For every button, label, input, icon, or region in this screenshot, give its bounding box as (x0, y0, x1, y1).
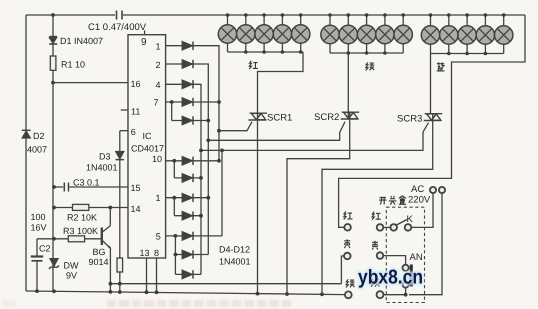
terminal AC2 (439, 187, 445, 193)
node rail SCR1 (256, 292, 260, 296)
wire blue bus to SCR3 (431, 54, 433, 121)
diode D9 (182, 157, 193, 165)
label switchbox 盒 (399, 196, 406, 205)
wire R2 to pin14 (54, 207, 73, 209)
wire pin10 branch (173, 161, 175, 178)
wire matrix row pin7 (166, 101, 219, 103)
diode D11 (182, 194, 193, 202)
svg-text:DW: DW (64, 261, 79, 271)
node rail R4 (118, 290, 122, 294)
pin 11 stub (121, 109, 128, 111)
switch box dashed border (386, 207, 424, 302)
svg-text:9V: 9V (66, 271, 77, 281)
svg-text:4007: 4007 (27, 145, 47, 155)
wire SCR3 cathode (322, 121, 433, 294)
svg-text:8: 8 (154, 248, 159, 258)
svg-text:SCR2: SCR2 (314, 112, 339, 123)
wire matrix row pin10b (174, 177, 201, 179)
wire matrix row pin5c (175, 273, 201, 275)
terminal red2 (377, 224, 384, 231)
wire bottom rail (26, 291, 345, 295)
svg-text:6: 6 (131, 127, 136, 137)
diode D10 (182, 174, 193, 182)
wire BG emitter (109, 248, 111, 292)
terminal green2 (377, 291, 384, 298)
terminal yellow1 (344, 253, 351, 260)
wire matrix row pin5 (166, 235, 222, 237)
node rail pin8 (155, 290, 159, 294)
svg-text:4: 4 (156, 80, 161, 90)
label red lamps 红 (249, 61, 258, 69)
svg-text:16V: 16V (31, 223, 47, 233)
node rail SCR2 (285, 292, 289, 296)
wire AC2 down (409, 193, 442, 294)
node R3 left (52, 237, 56, 241)
svg-text:1: 1 (156, 193, 161, 203)
node emitter / yellow line (109, 282, 113, 286)
wire matrix row pin4 (166, 84, 201, 274)
resistor R1 (50, 56, 56, 70)
wire SCR1 cathode (257, 120, 259, 294)
label terminal green1 绿 (346, 279, 355, 287)
node rail emitter (109, 290, 113, 294)
diode D4 (182, 42, 193, 50)
terminal green1 (345, 291, 352, 298)
thyristor SCR2 (341, 112, 360, 119)
label terminal red2 红 (372, 212, 381, 220)
node R1 bottom / pin16 wire (51, 81, 55, 85)
diode D7 (182, 98, 193, 106)
wire matrix row pin1Lb (174, 215, 201, 217)
wire bus D (221, 150, 223, 236)
svg-text:16: 16 (131, 79, 141, 89)
zener DW (49, 259, 59, 269)
node rail DW (52, 289, 56, 293)
wire blue lamp bus (431, 53, 504, 55)
svg-text:5: 5 (156, 232, 161, 242)
wire AN bottom down (405, 288, 407, 295)
wire pin 13 (146, 258, 148, 292)
svg-text:1N4001: 1N4001 (86, 163, 118, 173)
svg-text:IC: IC (143, 131, 153, 141)
thyristor SCR3 (424, 114, 443, 121)
wire pin7 branch (171, 102, 173, 121)
wire matrix row pin5b (175, 254, 208, 256)
svg-text:11: 11 (131, 107, 140, 117)
resistor R4 (117, 258, 123, 272)
capacitor C2 (36, 239, 38, 256)
svg-text:D3: D3 (99, 152, 111, 162)
wire pin5 branch (174, 236, 176, 255)
watermark red caption blobs (2, 300, 291, 307)
switch K (383, 226, 390, 228)
svg-text:AN: AN (410, 252, 423, 263)
svg-text:R3 100K: R3 100K (63, 226, 98, 236)
svg-text:C3 0.1: C3 0.1 (73, 178, 100, 188)
wire SCR1 gate line (219, 122, 252, 131)
lamp group red L1-L5 (218, 15, 310, 52)
diode D8 (182, 116, 193, 124)
wire SCR3 gate line (201, 123, 429, 151)
label terminal green2 绿 (371, 279, 380, 287)
node R4 / yellow line (118, 282, 122, 286)
svg-text:BG: BG (93, 247, 106, 257)
node lamp bottom junctions (244, 50, 487, 55)
node rail C2 (35, 289, 39, 293)
resistor R3 (68, 236, 84, 242)
svg-text:D2: D2 (33, 131, 45, 141)
diode Db (182, 250, 193, 258)
terminal red1 (344, 224, 351, 231)
label green lamps 绿 (366, 62, 375, 70)
IC U1 CD4017 box (128, 35, 166, 258)
lamp group green L6-L10 (321, 15, 413, 53)
svg-text:9: 9 (141, 37, 147, 48)
wire red lamp bus (228, 51, 304, 53)
wire top supply rail (26, 14, 115, 16)
diode D5 (182, 60, 193, 68)
wire left border (25, 15, 27, 291)
node rail SCR3 (320, 292, 324, 296)
wire green bus to SCR2 (348, 53, 349, 119)
svg-text:D1 IN4007: D1 IN4007 (60, 36, 103, 46)
node R2 left (52, 206, 56, 210)
svg-text:14: 14 (131, 204, 141, 214)
wire matrix row pin1L (166, 197, 209, 199)
CJK labels drawn as strokes (249, 61, 445, 288)
diode D6 (182, 80, 193, 88)
label terminal red1 红 (344, 211, 353, 219)
svg-text:SCR1: SCR1 (267, 113, 292, 124)
wire AC feed from top rail (339, 15, 525, 227)
svg-text:1: 1 (156, 42, 161, 52)
wire green lamp bus (330, 52, 403, 54)
wire pin5 branch2 (174, 255, 176, 275)
svg-text:K: K (407, 214, 414, 225)
svg-text:R2 10K: R2 10K (67, 213, 97, 223)
svg-text:7: 7 (154, 98, 159, 108)
label terminal yellow2 黄 (372, 241, 378, 250)
node lamp top junctions (226, 13, 506, 17)
svg-text:SCR3: SCR3 (397, 114, 422, 125)
label switchbox 开 (379, 198, 387, 205)
node AN bottom / green2 wire (404, 293, 408, 297)
wire pin6 D3 R4 branch (120, 130, 128, 132)
node rail pin13 (145, 290, 149, 294)
wire C3 to pin15 (54, 186, 63, 188)
wire K to AC1 (411, 193, 433, 227)
wire C2 ext / R3 line (37, 238, 68, 240)
svg-text:AC: AC (411, 184, 424, 195)
button AN (403, 265, 409, 271)
svg-text:100: 100 (31, 212, 46, 222)
label terminal yellow1 黄 (344, 239, 350, 248)
node collector junction (108, 206, 112, 210)
wire D1 branch vertical (52, 15, 54, 291)
wire pin16 (53, 82, 128, 84)
svg-text:1N4001: 1N4001 (219, 257, 251, 267)
diode D3 (116, 152, 125, 160)
wire matrix row pin7b (172, 120, 209, 122)
svg-text:2: 2 (156, 60, 161, 70)
resistor R2 (73, 204, 89, 210)
svg-text:15: 15 (131, 183, 141, 193)
wire red bus to SCR1 (258, 52, 304, 120)
wire green2 to AN junction (383, 294, 405, 296)
terminal AC1 (430, 187, 436, 193)
pin 9 stub (144, 30, 146, 34)
wire matrix row pin2 (166, 64, 209, 255)
diode D1 (49, 37, 57, 44)
svg-text:CD4017: CD4017 (131, 144, 164, 154)
diode Dc (182, 270, 193, 278)
diode D2 (22, 130, 31, 138)
svg-text:R1 10: R1 10 (61, 60, 85, 70)
diode Da (182, 232, 193, 240)
svg-text:C1 0.47/400V: C1 0.47/400V (88, 22, 147, 33)
label blue lamps 蓝 (437, 62, 445, 71)
wire pin 8 (156, 258, 158, 292)
svg-text:C2: C2 (39, 244, 51, 254)
wire yellow return line (110, 283, 341, 285)
node C3 left (52, 185, 56, 189)
wire SCR2 cathode (287, 119, 350, 294)
svg-text:ybx8.cn: ybx8.cn (358, 267, 423, 289)
label switchbox 关 (389, 196, 397, 205)
lamp group blue L11-L15 (421, 15, 513, 54)
svg-text:10: 10 (152, 154, 162, 164)
svg-text:9014: 9014 (89, 257, 109, 267)
wire yellow2 to AN top (383, 256, 405, 265)
thyristor SCR1 (249, 113, 268, 120)
capacitor C3 (64, 183, 68, 192)
svg-text:13: 13 (140, 248, 150, 258)
wire matrix row pin10 (166, 160, 219, 162)
capacitor C1 (117, 11, 123, 20)
terminal yellow2 (377, 252, 384, 259)
wire pin1L branch (173, 198, 175, 216)
wire matrix row pin1 (166, 46, 219, 161)
svg-text:220V: 220V (408, 195, 431, 206)
wire BG collector (109, 208, 111, 226)
svg-text:D4-D12: D4-D12 (219, 245, 250, 255)
node top rail / D1 branch (51, 13, 55, 17)
diode D12 (182, 212, 193, 220)
transistor BG 9014 (102, 226, 112, 249)
wire SCR2 gate line (208, 122, 345, 141)
